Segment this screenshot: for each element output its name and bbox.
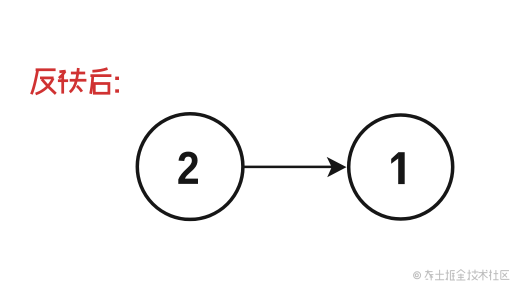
- 土: [435, 270, 444, 280]
- node 1 value label "1": [391, 152, 405, 184]
- node circle 2: [137, 114, 243, 220]
- arrowhead: [327, 157, 347, 177]
- 区: [501, 271, 510, 280]
- arrow (next pointer) from node 2 to node 1: [244, 166, 332, 169]
- char 后: [90, 69, 111, 94]
- 技: [467, 270, 478, 281]
- node 2 value label "2": [178, 152, 198, 184]
- 稀: [425, 270, 434, 281]
- 掘: [446, 270, 455, 280]
- 社: [489, 270, 498, 280]
- char 转: [58, 68, 87, 94]
- char 反: [31, 70, 55, 94]
- label "反转后:" (red heading): [31, 68, 111, 94]
- @: [414, 272, 421, 279]
- node circle 1: [349, 115, 453, 219]
- watermark "@稀土掘金技术社区": [414, 270, 510, 281]
- colon of heading: [115, 77, 119, 93]
- 术: [478, 270, 487, 281]
- 金: [456, 270, 465, 280]
